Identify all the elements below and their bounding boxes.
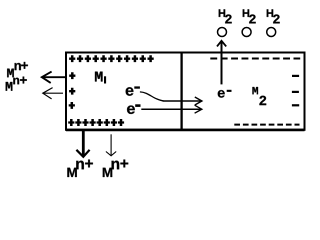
tank bottom edge emphasis [66,129,305,132]
arrow: ion dissolving downward (thick) [76,131,89,157]
wire: curved lead from upper e- to arrow [140,92,164,101]
cathode surface dashed line, bottom [234,124,299,126]
gas label H2 (third) [267,9,280,23]
ion label Mn+ (upper left, second) [6,77,27,91]
arrow: metal ion leaving anode (lower, thin) [43,88,63,99]
ion label Mn+ (upper left, first) [7,62,28,77]
arrow: upper electron flow into cathode cell [163,97,202,105]
electron label e- (lower, inside M1) [127,104,140,114]
anode M1 positive charges, bottom row [68,119,124,126]
electrode label M1 [95,72,106,84]
arrow: metal ion leaving anode (upper, bold) [42,72,66,83]
anode M1 positive charges, left column [69,72,76,109]
electron label e- (upper, inside M1) [126,86,140,95]
arrow: hydrogen gas evolution upward [217,41,226,85]
anode M1 positive charges, top row [69,55,154,62]
tank outline (cell container) [66,53,305,130]
cathode surface dashed line, top [210,58,300,60]
H2 bubble 3 [267,28,276,37]
gas label H2 (first) [219,9,232,23]
electron label e- (inside M2) [218,90,232,98]
gas label H2 (second) [243,9,256,23]
ion label Mn+ (bottom, second) [103,160,128,177]
ion label Mn+ (bottom, first) [67,160,92,177]
cathode negative charges, right column [292,75,299,107]
H2 bubble 1 [218,28,227,37]
H2 bubble 2 [242,28,251,37]
arrow: lower electron flow into cathode cell [141,105,202,113]
arrow: ion dissolving downward (thin) [106,134,116,156]
divider wall between half-cells [180,52,182,131]
electrode label M2 [252,87,266,105]
